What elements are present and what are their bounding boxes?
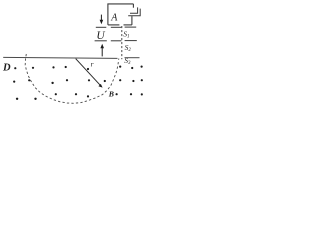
svg-text:B: B [108, 90, 114, 99]
svg-text:r: r [91, 60, 94, 69]
boundary line with S3 plate (left long segment) [3, 57, 117, 58]
svg-text:D: D [2, 62, 11, 73]
plate S2 row [95, 40, 137, 42]
hook pipe outer [128, 9, 140, 16]
field dots row 1 [14, 66, 143, 71]
plate S3 right segment [125, 57, 140, 59]
dimension arrow down (above S1) [100, 15, 104, 25]
dashed circular trajectory in field [25, 54, 119, 103]
dashed beam line (vertical trajectory) [121, 26, 123, 59]
svg-text:U: U [96, 30, 105, 42]
plate S1 row (extension bar + plate with hole) [96, 26, 136, 28]
radius line r with arrow to B [76, 59, 101, 85]
hook pipe inner [130, 7, 138, 13]
field dots row 2 [13, 79, 143, 84]
box A (particle source container) [108, 4, 133, 25]
dimension arrow up (below S2) [100, 44, 104, 57]
svg-text:A: A [110, 13, 118, 24]
field dots row 3 [16, 93, 143, 100]
